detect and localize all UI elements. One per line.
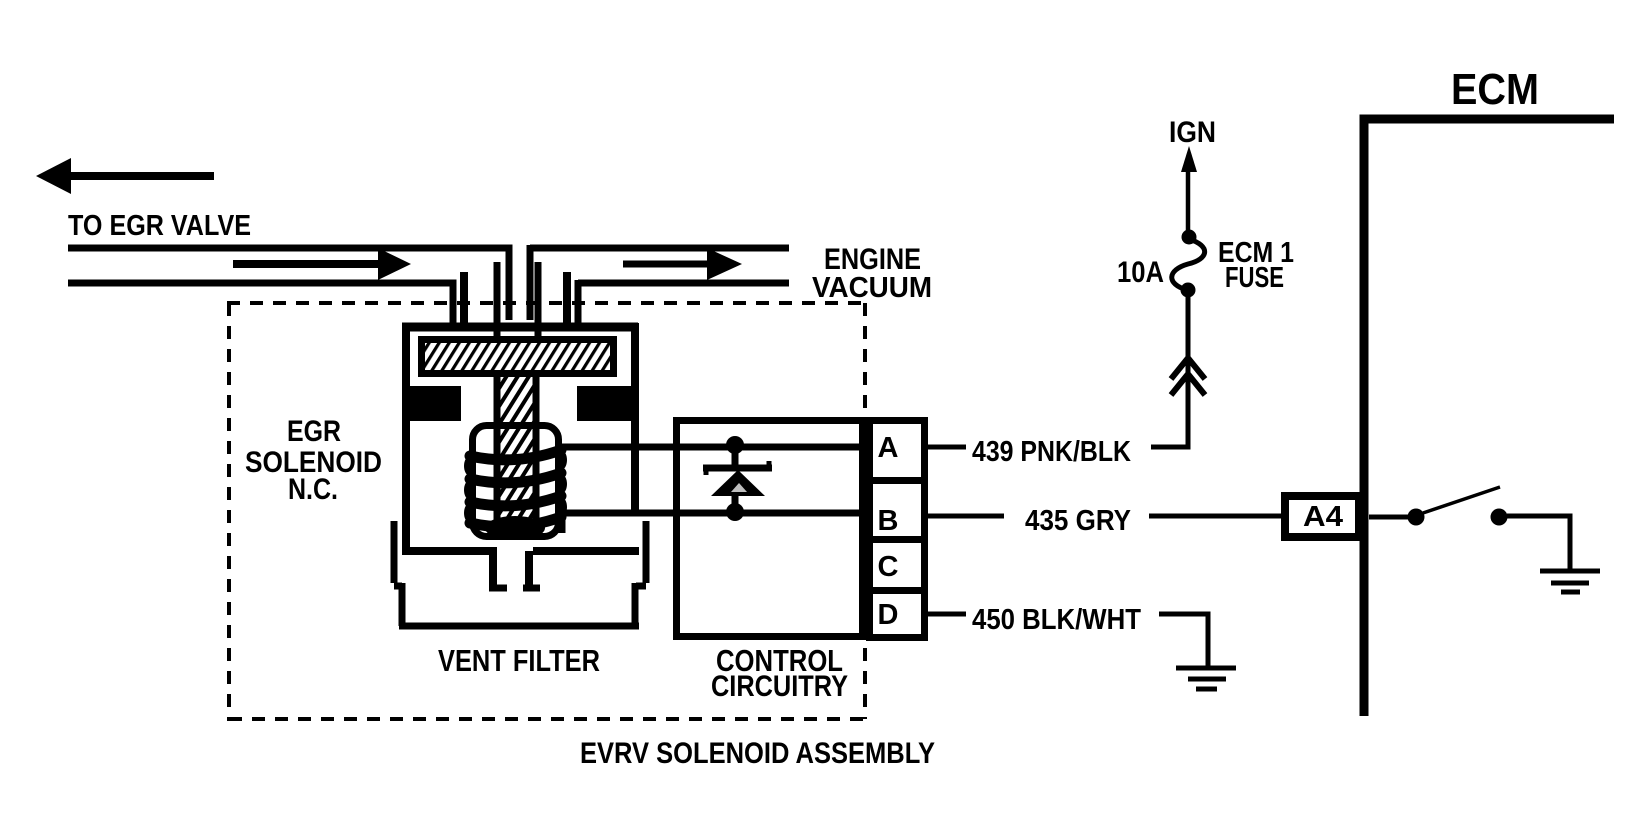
node port left wall bbox=[460, 272, 468, 327]
wire IGN arrow bbox=[1181, 146, 1197, 235]
node center port right wall bbox=[535, 262, 542, 336]
connector pin A bbox=[870, 421, 925, 481]
flow arrow in vacuum pipe bbox=[623, 248, 742, 280]
svg-text:435 GRY: 435 GRY bbox=[1025, 505, 1131, 537]
wire 439 to fuse bbox=[1151, 294, 1188, 447]
wire solenoid to pin A bbox=[559, 444, 866, 451]
ground G1 bbox=[1540, 571, 1600, 592]
switch contact right bbox=[1491, 509, 1508, 526]
svg-text:A: A bbox=[878, 432, 899, 464]
wire 435 GRY stub bbox=[928, 514, 1004, 519]
svg-text:VENT FILTER: VENT FILTER bbox=[438, 643, 600, 678]
coil bobbin bbox=[473, 426, 559, 537]
zener diode VR1 bbox=[703, 436, 772, 521]
svg-text:B: B bbox=[878, 505, 899, 537]
svg-text:439 PNK/BLK: 439 PNK/BLK bbox=[972, 436, 1131, 468]
coil bottom mass bbox=[485, 516, 545, 540]
control circuitry box bbox=[677, 421, 863, 637]
svg-text:EGR: EGR bbox=[287, 415, 341, 448]
wire vacuum pipe bottom line bbox=[578, 280, 789, 324]
switch blade bbox=[1423, 487, 1500, 513]
pole piece left bbox=[409, 386, 461, 421]
junction dot fuse top bbox=[1182, 230, 1197, 245]
wire 439 PNK/BLK stub bbox=[928, 445, 966, 450]
fuse ECM 1 10A bbox=[1172, 239, 1205, 290]
connector pin C bbox=[870, 540, 925, 591]
svg-text:C: C bbox=[878, 551, 899, 583]
wire vacuum pipe top line bbox=[530, 245, 789, 320]
wire switch to ground bbox=[1507, 516, 1570, 569]
armature hatched bar bbox=[422, 340, 614, 374]
wire pipe to EGR valve bottom line bbox=[68, 283, 453, 324]
svg-text:10A: 10A bbox=[1117, 256, 1164, 289]
wire A4 to switch bbox=[1369, 515, 1408, 520]
wire pipe to EGR valve top line bbox=[68, 248, 509, 320]
flow arrow to EGR valve bbox=[36, 158, 214, 194]
wire solenoid to pin B bbox=[559, 513, 866, 533]
svg-text:TO EGR VALVE: TO EGR VALVE bbox=[68, 210, 251, 242]
EVRV assembly dashed box bbox=[227, 303, 866, 721]
coil winding turns bbox=[470, 450, 561, 527]
connector A4 box bbox=[1285, 496, 1359, 537]
pole piece right bbox=[577, 386, 631, 421]
switch contact left bbox=[1408, 509, 1425, 526]
solenoid body outline bbox=[402, 323, 639, 588]
svg-text:VACUUM: VACUUM bbox=[812, 272, 932, 304]
vent filter bracket bbox=[394, 521, 646, 626]
svg-text:A4: A4 bbox=[1303, 501, 1343, 533]
ground G2 bbox=[1176, 668, 1236, 689]
svg-text:EVRV SOLENOID ASSEMBLY: EVRV SOLENOID ASSEMBLY bbox=[580, 737, 935, 770]
plunger stem hatched bbox=[497, 377, 536, 526]
svg-text:450 BLK/WHT: 450 BLK/WHT bbox=[972, 604, 1141, 636]
svg-text:N.C.: N.C. bbox=[288, 473, 338, 506]
node center port left wall bbox=[494, 262, 501, 336]
svg-text:IGN: IGN bbox=[1169, 116, 1216, 149]
wire 435 to A4 bbox=[1149, 514, 1281, 519]
flow arrow in EGR pipe bbox=[233, 248, 411, 280]
svg-text:ECM: ECM bbox=[1451, 65, 1539, 114]
connector pin D bbox=[870, 591, 925, 638]
connector chevrons in 439 wire bbox=[1171, 358, 1205, 395]
junction dot fuse bottom bbox=[1181, 283, 1196, 298]
wire 450 to ground bbox=[1159, 614, 1208, 668]
connector pin B bbox=[870, 481, 925, 540]
svg-text:CIRCUITRY: CIRCUITRY bbox=[711, 670, 848, 703]
ECM block outline bbox=[1364, 119, 1614, 716]
wire 450 BLK/WHT stub bbox=[928, 612, 966, 617]
node port right wall bbox=[563, 272, 571, 327]
svg-text:D: D bbox=[878, 599, 899, 631]
svg-text:FUSE: FUSE bbox=[1225, 262, 1284, 294]
